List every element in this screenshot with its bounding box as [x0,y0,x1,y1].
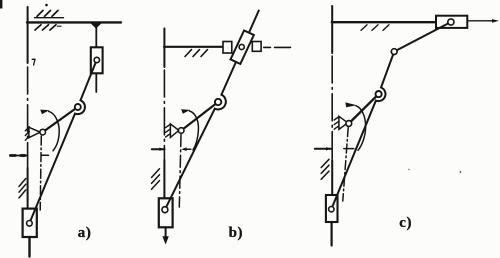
rotation arc arrow c [356,106,366,151]
horizontal centerline a [10,155,28,157]
slider block bottom b [159,198,173,227]
wire: horizontal guide centerline right b [264,46,271,48]
wall hatching for bottom slider guide b [152,169,160,178]
slider block bottom a [23,209,37,237]
wire: ceiling line a [27,21,121,23]
link: crank b [181,102,218,131]
wire: frame vertical guide line b [163,29,165,68]
svg-text:b): b) [229,225,244,241]
joint: fixed pivot b [170,124,178,137]
wall hatching for bottom slider guide a [19,179,26,187]
pin joint in top slider a [94,57,99,62]
pin joint in bottom slider b [162,207,168,213]
crank centerline (vertical position) c [343,128,348,202]
scan artifact top-left corner [0,0,2,9]
link: crank c [349,94,379,123]
node: fixed anchor triangle on ceiling a [91,23,102,28]
ground hatching below ceiling a [35,25,41,30]
slider block top a [91,47,103,73]
ground hatching below ceiling c [361,25,367,31]
pin joint in top slider c [448,19,454,25]
wire: frame vertical guide line (left wall) a [27,7,29,63]
output rod below slider c [331,222,333,246]
output rod below slider a [28,237,30,257]
link: crank a [43,107,78,132]
wire: vertical guide for top slider a [95,23,97,48]
joint: fixed pivot c [339,116,348,129]
pin joint in top slider b [239,44,244,49]
wire: ceiling line c [332,21,436,23]
horizontal centerline b [152,148,165,150]
joint: upper revolute joint c [391,49,397,55]
joint: central pin b [215,99,221,105]
wire: ceiling line b [164,46,223,48]
ground hatching above ceiling a [35,17,64,19]
rotation arc arrow b [190,111,199,150]
slider guide tabs b [223,42,232,54]
output rod with arrow below slider b [165,227,167,238]
slider block on horizontal guide b (rotated) [231,30,254,64]
link: long rod from bottom slider wrapping joint up through top slider b [165,11,259,210]
scan speckles [460,171,462,173]
svg-text:c): c) [399,215,412,231]
crank centerline (vertical position) a [40,136,41,210]
wire: frame vertical guide line c [331,6,333,53]
node: small scan mark near line a [32,59,35,65]
link: rod from top slider wrapping big joint to bottom slider c [331,22,451,209]
joint: central pin c [376,91,382,97]
link: rod from top slider wrapping joint to bottom slider a [29,61,96,224]
horizontal centerline c [315,148,331,150]
slider block top c [436,16,467,28]
joint: central pin a [75,104,81,110]
crank centerline (vertical position) b [179,135,181,208]
pin joint in bottom slider a [27,221,33,227]
slider block bottom c [326,195,338,222]
rotation arc arrow a [49,111,60,151]
wall hatching for bottom slider guide c [321,159,329,167]
pin joint in bottom slider c [329,207,334,212]
wire: horizontal guide right of slider with arrow c [468,20,494,22]
svg-text:a): a) [78,225,92,241]
joint: fixed pivot a [29,127,40,137]
ground hatching below ceiling b [185,50,192,57]
